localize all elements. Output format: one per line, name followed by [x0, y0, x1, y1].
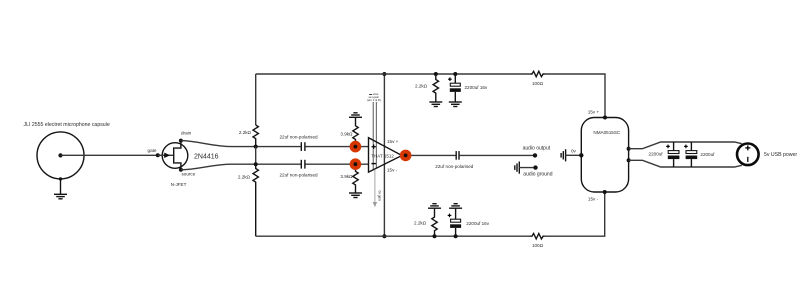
- gain wire (pin 8): [375, 102, 377, 169]
- svg-text:JLI 2555 electret microphone c: JLI 2555 electret microphone capsule: [24, 122, 110, 128]
- ground (mic): [54, 177, 67, 199]
- wire +out to usb +: [629, 142, 742, 149]
- capacitor C2 22uf non-polarised (bottom): [280, 160, 318, 178]
- node rail/R8: [433, 234, 437, 238]
- svg-text:15v +: 15v +: [387, 139, 399, 144]
- node op-amp output (red): [400, 150, 456, 162]
- wire C2 to op-amp - input: [306, 163, 369, 165]
- DC-DC converter U2 NMA0515SC: [581, 118, 628, 193]
- node audio output: [523, 145, 551, 157]
- resistor R4 3.9k (bottom): [353, 164, 358, 192]
- node junction R1/top signal: [254, 145, 258, 149]
- svg-text:gate: gate: [148, 148, 157, 153]
- gain wire (pin 1): [372, 102, 374, 170]
- wire -out to usb -: [629, 160, 742, 167]
- svg-text:3.9kΩ: 3.9kΩ: [340, 132, 353, 137]
- resistor R2 2.2k (bottom left): [253, 164, 258, 236]
- svg-text:2200uf: 2200uf: [700, 152, 715, 157]
- node rail/C5: [454, 234, 458, 238]
- svg-text:22uf non-polarised: 22uf non-polarised: [435, 164, 473, 169]
- svg-text:100Ω: 100Ω: [532, 81, 544, 86]
- svg-text:0v gain: 0v gain: [378, 191, 382, 202]
- resistor R8 2.2k (bottom rail to ground): [432, 209, 437, 237]
- svg-text:2200uf 16v: 2200uf 16v: [465, 85, 488, 90]
- svg-text:audio ground: audio ground: [523, 172, 552, 178]
- svg-text:5v USB power: 5v USB power: [764, 152, 797, 158]
- resistor R6 2.2k (top rail to ground): [433, 74, 438, 102]
- svg-text:2.2kΩ: 2.2kΩ: [238, 174, 251, 179]
- svg-text:N-JFET: N-JFET: [171, 182, 187, 187]
- wire source to bottom signal rail: [181, 164, 301, 170]
- node converter top pin: [603, 116, 607, 120]
- svg-text:audio output: audio output: [523, 145, 551, 151]
- ground (above R3): [349, 113, 362, 118]
- node rail/R6: [434, 72, 438, 76]
- node rail/C4: [453, 72, 457, 76]
- node converter +out pin: [627, 147, 631, 151]
- node converter -out pin: [627, 158, 631, 162]
- bottom rail 15v-: [256, 235, 531, 237]
- connector 0v: [561, 149, 581, 162]
- node junction + input (red): [350, 141, 362, 153]
- wire C3 to audio output: [459, 154, 535, 156]
- left feedback loop: left vertical wire: [255, 74, 257, 125]
- capacitor C6 2200uf: [649, 142, 680, 167]
- wire drain to top signal rail: [181, 141, 301, 147]
- node supply/bottom rail: [382, 234, 386, 238]
- svg-text:2.2kΩ: 2.2kΩ: [239, 130, 252, 135]
- svg-text:NMA0515SC: NMA0515SC: [593, 130, 620, 135]
- resistor R5 100 ohm (top rail): [531, 71, 545, 76]
- capacitor C3 22uf non-polarised (output): [435, 151, 473, 169]
- ground (below R6): [429, 102, 442, 107]
- node 0v pin: [579, 153, 583, 157]
- svg-text:15v +: 15v +: [588, 110, 600, 115]
- resistor R1 2.2k (top left): [253, 125, 258, 147]
- svg-text:3.9kΩ: 3.9kΩ: [340, 174, 353, 179]
- svg-text:drain: drain: [181, 131, 192, 136]
- svg-text:22uf non-polarised: 22uf non-polarised: [280, 135, 318, 140]
- capacitor C1 22uf non-polarised (top): [280, 135, 318, 152]
- node gate: [148, 148, 160, 158]
- ground (below R4): [349, 193, 362, 198]
- connector audio ground: [515, 162, 553, 178]
- wire mic output to gate: [61, 154, 158, 156]
- resistor R7 100 ohm (bottom rail): [531, 234, 545, 239]
- annotation arrow (grey): [373, 170, 382, 207]
- svg-text:2200uf: 2200uf: [649, 152, 664, 157]
- node junction R2/bottom signal: [254, 162, 258, 166]
- svg-text:THAT 1512: THAT 1512: [371, 153, 394, 158]
- power source 5v USB: [737, 144, 759, 166]
- node supply/top rail: [382, 72, 386, 76]
- svg-text:2200uf 16v: 2200uf 16v: [466, 221, 489, 226]
- svg-text:2N4416: 2N4416: [194, 153, 219, 160]
- capacitor C5 2200uf 16v (bottom, polarised): [448, 209, 490, 237]
- node junction - input (red): [350, 158, 362, 170]
- ground (above R8, inverted): [428, 204, 441, 209]
- wire between signal rails: [255, 147, 257, 165]
- op-amp supply wire 15v+ / 15v- vertical: [383, 74, 385, 236]
- transistor Q1 2N4416 N-JFET: [158, 139, 188, 172]
- resistor R3 3.9k (top): [353, 117, 358, 146]
- svg-text:2.2kΩ: 2.2kΩ: [415, 84, 428, 89]
- svg-text:source: source: [182, 172, 196, 177]
- top rail 15v+: [256, 73, 531, 75]
- microphone capsule MIC1: [37, 132, 84, 179]
- svg-text:22uf non-polarised: 22uf non-polarised: [280, 172, 318, 177]
- ground (below C4): [449, 102, 462, 107]
- svg-text:2.2kΩ: 2.2kΩ: [414, 221, 427, 226]
- svg-text:(pin 1 & 8): (pin 1 & 8): [367, 98, 381, 102]
- ground (above C5, inverted): [449, 204, 462, 209]
- svg-text:0v: 0v: [571, 149, 577, 154]
- svg-text:15v -: 15v -: [588, 197, 599, 202]
- svg-text:15v -: 15v -: [387, 167, 398, 172]
- node converter bottom pin: [603, 190, 607, 194]
- svg-text:100Ω: 100Ω: [532, 243, 544, 248]
- op-amp U1 THAT 1512: [369, 138, 402, 172]
- wire C1 to op-amp + input: [306, 146, 369, 148]
- note: wire to set gain (pin 1 & 8): [367, 92, 381, 102]
- capacitor C4 2200uf 16v (top, polarised): [448, 74, 488, 102]
- capacitor C7 2200uf: [684, 142, 715, 167]
